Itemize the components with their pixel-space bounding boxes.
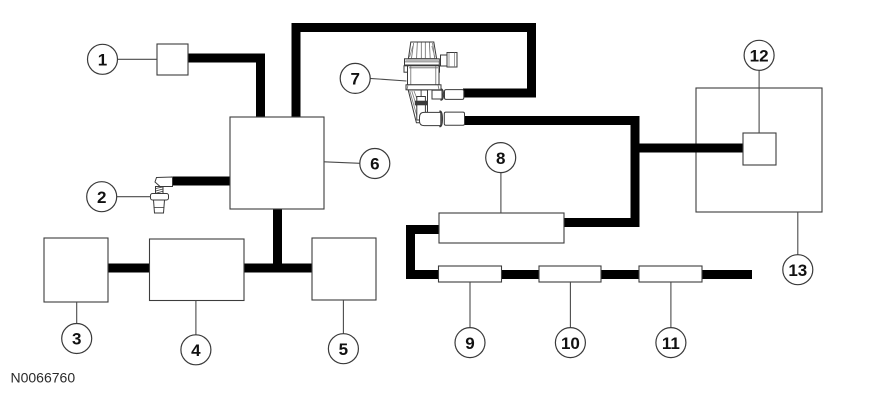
- leader line 2: [116, 196, 151, 198]
- nut: [151, 194, 169, 201]
- lower elbow port: [420, 112, 441, 125]
- hose branch to box 12: [635, 144, 743, 153]
- svg-text:12: 12: [750, 47, 769, 66]
- svg-text:3: 3: [72, 330, 81, 349]
- valve cap: [408, 42, 436, 59]
- box 9 (inline component): [439, 266, 502, 282]
- hose from valve 7 lower port to right, down, into box 8 right side: [463, 121, 635, 223]
- box 13 (large module, drawn under hose): [696, 88, 822, 212]
- callout circle 11: [656, 328, 686, 358]
- callout circle 7: [340, 63, 370, 93]
- box 12 (connector inside box 13): [743, 133, 776, 165]
- leader line 6: [324, 162, 360, 164]
- inner plunger: [417, 97, 426, 121]
- box 1 component (small square): [157, 44, 188, 75]
- leader line 9: [469, 282, 471, 328]
- fitting item 2: [151, 177, 173, 213]
- valve assembly item 7: [404, 42, 465, 127]
- electrical connector: [441, 55, 448, 66]
- svg-text:1: 1: [98, 51, 107, 70]
- hose loop: box 6 top to valve 7 upper port: [296, 28, 532, 118]
- callout circle 12: [744, 40, 774, 70]
- box 11 (inline component): [639, 266, 702, 282]
- leader line 12: [758, 70, 760, 133]
- callout circle 8: [486, 143, 516, 173]
- svg-text:5: 5: [339, 340, 348, 359]
- svg-text:10: 10: [561, 334, 580, 353]
- body lower band: [406, 85, 441, 90]
- svg-text:N0066760: N0066760: [11, 370, 76, 386]
- svg-text:13: 13: [788, 261, 807, 280]
- svg-text:2: 2: [97, 188, 106, 207]
- svg-text:9: 9: [465, 334, 474, 353]
- svg-text:11: 11: [662, 334, 680, 353]
- box 3: [44, 238, 108, 302]
- callout circle 2: [87, 182, 117, 212]
- upper port nipple: [432, 90, 442, 99]
- bottom-left hose through boxes 3,4,5: [108, 264, 312, 273]
- hatched neck: [156, 187, 164, 194]
- leader line 5: [342, 300, 344, 334]
- box 8 (long component): [439, 213, 564, 243]
- leader line 8: [500, 172, 502, 213]
- box 6 (junction block): [230, 117, 324, 209]
- callout circle 1: [88, 44, 118, 74]
- hose from box 6 bottom down: [273, 209, 282, 268]
- leader line 1: [117, 58, 157, 60]
- leader line 4: [195, 301, 197, 336]
- threaded stem: [154, 200, 165, 213]
- svg-text:6: 6: [370, 155, 379, 174]
- hose from fitting 2 to box 6 left: [171, 177, 230, 186]
- svg-text:8: 8: [496, 149, 505, 168]
- callout circle 10: [555, 328, 585, 358]
- callout circle 6: [360, 149, 390, 179]
- leader line 11: [670, 282, 672, 328]
- box 4: [150, 239, 245, 301]
- hose from component 1 box to box 6: [188, 58, 261, 117]
- hose U: box 8 left side down to bottom run through boxes 9,10,11: [411, 230, 753, 275]
- svg-text:7: 7: [350, 70, 359, 89]
- elbow: [155, 177, 173, 187]
- callout circle 9: [455, 328, 485, 358]
- leader line 13: [797, 212, 799, 255]
- callout circle 4: [181, 335, 211, 365]
- leader line 10: [569, 282, 571, 328]
- leader line 3: [76, 302, 78, 324]
- box 5: [312, 238, 376, 300]
- valve body: [404, 66, 410, 72]
- callout circle 5: [328, 334, 358, 364]
- valve flange: [405, 59, 440, 65]
- callout circle 3: [62, 324, 92, 354]
- leader line 7: [370, 78, 407, 81]
- box 10 (inline component): [539, 266, 601, 282]
- lower funnel: [408, 90, 427, 123]
- callout circle 13: [783, 255, 813, 285]
- svg-text:4: 4: [191, 341, 201, 360]
